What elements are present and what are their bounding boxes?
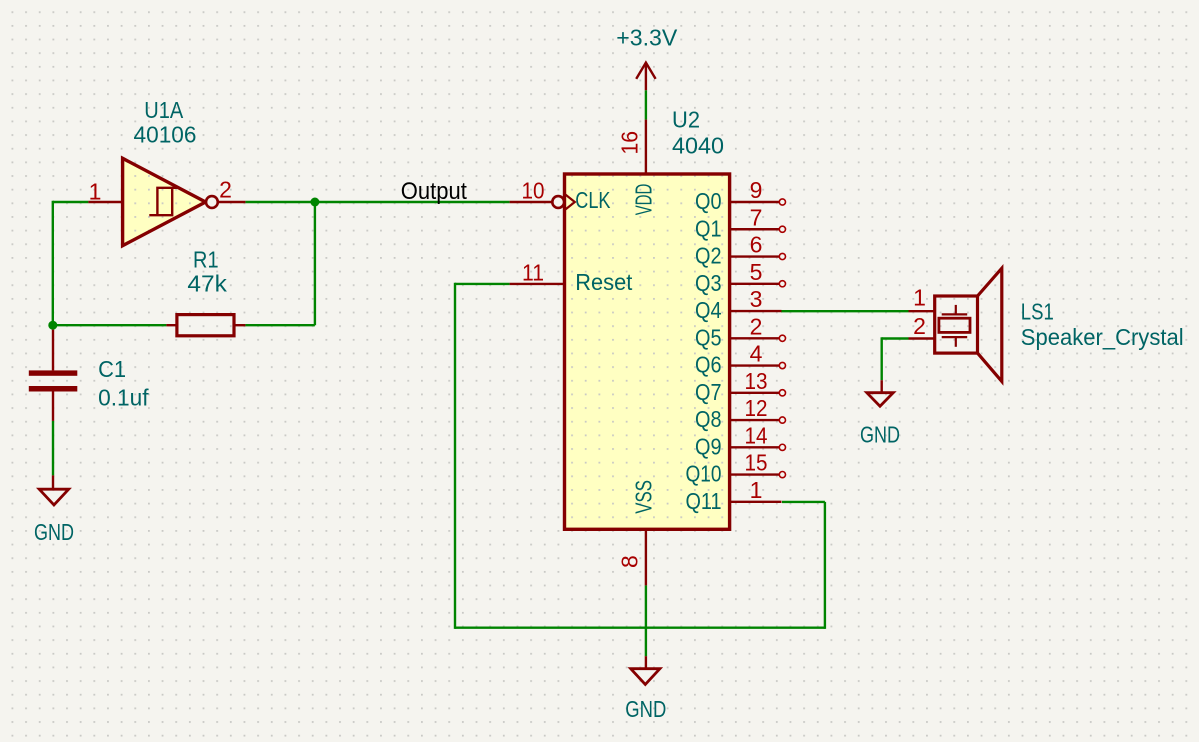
junction: C1 / R1 / U1A input [48, 321, 57, 330]
svg-text:Speaker_Crystal: Speaker_Crystal [1021, 324, 1184, 350]
value 4040 [672, 133, 724, 159]
wire: C1 bottom to GND [52, 421, 54, 476]
hysteresis symbol (U1A) [149, 188, 177, 215]
svg-text:Q9: Q9 [695, 433, 722, 459]
power symbol +3.3V [636, 63, 655, 91]
svg-text:47k: 47k [187, 271, 227, 297]
wire: Output net, U1A pin2 to U2 CLK [245, 201, 509, 203]
label +3.3V [616, 25, 678, 51]
U2 pin 5 Q3 [695, 259, 786, 296]
value 47k [187, 271, 227, 297]
svg-text:40106: 40106 [134, 122, 197, 148]
svg-text:Q6: Q6 [695, 352, 722, 378]
U2 pin 15 Q10 [686, 450, 786, 487]
wire: U1A input node (pin1 / R1 left / C1 top) [53, 201, 167, 325]
U2 pin 10 CLK [510, 195, 575, 210]
reference C1 [98, 356, 126, 382]
wire: U2 Q11 to bottom rail [645, 502, 825, 629]
label GND (LS1) [860, 422, 900, 448]
svg-text:9: 9 [750, 177, 763, 203]
label GND (VSS) [625, 696, 666, 722]
value 0.1uf [98, 385, 149, 411]
svg-text:GND: GND [625, 696, 666, 722]
svg-text:3: 3 [750, 286, 763, 312]
net label Output [401, 178, 467, 205]
svg-text:R1: R1 [193, 247, 219, 273]
value 40106 [134, 122, 197, 148]
reference LS1 [1021, 299, 1054, 325]
svg-text:1: 1 [750, 477, 763, 503]
pin name VDD [631, 184, 657, 216]
svg-text:13: 13 [745, 368, 768, 394]
svg-text:Q7: Q7 [695, 379, 722, 405]
U2 pin 8 VSS [645, 529, 647, 585]
ground GND (C1) [39, 475, 68, 505]
reference U1A [144, 97, 184, 123]
pin number 10 (U2 CLK) [522, 178, 545, 204]
reference R1 [193, 247, 219, 273]
wire: LS1 pin2 to GND [882, 337, 909, 380]
U2 pin 2 Q5 [695, 313, 786, 350]
U2 pin 7 Q1 [695, 204, 786, 241]
svg-text:5: 5 [750, 259, 763, 285]
pin number 1 (U1A) [89, 179, 102, 205]
U2 pin 11 Reset [510, 283, 565, 285]
crystal symbol (LS1) [939, 305, 970, 347]
speaker LS1 pin 2 [909, 337, 935, 339]
svg-text:1: 1 [913, 285, 926, 311]
svg-text:VDD: VDD [631, 184, 657, 216]
ic U2 4040 body [565, 174, 730, 529]
U2 pin 9 Q0 [695, 177, 786, 214]
svg-text:C1: C1 [98, 356, 126, 382]
wire: U2 Reset to bottom rail [455, 283, 647, 629]
resistor R1 [166, 315, 245, 336]
svg-text:2: 2 [913, 313, 926, 339]
inverter U1A (40106 schmitt trigger) [123, 158, 206, 245]
pin name Reset [575, 269, 633, 295]
U2 pin 16 VDD [645, 120, 647, 174]
pin number 8 (U2 VSS) [617, 555, 643, 568]
svg-text:CLK: CLK [575, 187, 611, 213]
svg-text:Reset: Reset [575, 269, 633, 295]
svg-text:Q11: Q11 [686, 488, 722, 514]
U2 pin 4 Q6 [695, 341, 786, 378]
U2 pin 6 Q2 [695, 232, 786, 269]
svg-text:6: 6 [750, 232, 763, 258]
svg-text:7: 7 [750, 204, 763, 230]
svg-text:2: 2 [750, 313, 763, 339]
svg-text:Q8: Q8 [695, 406, 722, 432]
inverter U1A pin 2 [218, 201, 246, 203]
svg-text:14: 14 [745, 422, 768, 448]
wire: R1 right to Output node [245, 202, 315, 325]
U2 pin 12 Q8 [695, 395, 786, 432]
U2 pin 1 Q11 [686, 477, 782, 514]
reference U2 [672, 107, 700, 133]
svg-text:16: 16 [617, 131, 643, 155]
svg-text:Q10: Q10 [686, 461, 722, 487]
pin number 16 (U2 VDD) [617, 131, 643, 155]
svg-text:0.1uf: 0.1uf [98, 385, 149, 411]
svg-text:U1A: U1A [144, 97, 184, 123]
svg-text:1: 1 [89, 179, 102, 205]
svg-text:12: 12 [745, 395, 768, 421]
speaker LS1 pin 1 [909, 310, 935, 312]
svg-text:4040: 4040 [672, 133, 724, 159]
svg-text:8: 8 [617, 555, 643, 568]
svg-text:GND: GND [34, 519, 74, 545]
svg-text:Q2: Q2 [695, 243, 722, 269]
svg-text:11: 11 [522, 260, 544, 286]
svg-text:Q0: Q0 [695, 188, 722, 214]
pin number 2 (LS1) [913, 313, 926, 339]
wire: U2 VSS to GND [645, 585, 647, 656]
wire: U2 Q4 to LS1 pin1 [781, 310, 909, 312]
svg-text:Q5: Q5 [695, 324, 722, 350]
wire: +3.3V to U2 VDD [645, 90, 647, 119]
pin name VSS [631, 480, 657, 514]
svg-text:15: 15 [745, 450, 768, 476]
svg-text:Output: Output [401, 178, 467, 205]
capacitor C1 [29, 330, 78, 421]
ground GND (LS1) [867, 380, 894, 406]
ground GND (VSS) [631, 656, 660, 684]
junction: Output / R1 right [310, 198, 319, 207]
inversion bubble (U1A output) [206, 196, 218, 208]
label GND (C1) [34, 519, 74, 545]
svg-text:+3.3V: +3.3V [616, 25, 678, 51]
U2 pin 3 Q4 [695, 286, 782, 323]
value Speaker_Crystal [1021, 324, 1184, 350]
svg-text:4: 4 [750, 341, 763, 367]
svg-text:2: 2 [219, 177, 232, 203]
svg-text:10: 10 [522, 178, 545, 204]
svg-text:Q1: Q1 [695, 215, 722, 241]
pin number 11 (U2 Reset) [522, 260, 544, 286]
svg-text:Q3: Q3 [695, 270, 722, 296]
pin name CLK [575, 187, 611, 213]
U2 pin 14 Q9 [695, 422, 786, 459]
inverter U1A pin 1 [88, 201, 122, 203]
svg-text:LS1: LS1 [1021, 299, 1054, 325]
svg-text:U2: U2 [672, 107, 700, 133]
pin number 2 (U1A) [219, 177, 232, 203]
speaker LS1 body [935, 268, 1002, 381]
U2 pin 13 Q7 [695, 368, 786, 405]
svg-text:Q4: Q4 [695, 297, 722, 323]
svg-text:GND: GND [860, 422, 900, 448]
svg-text:VSS: VSS [631, 480, 657, 514]
pin number 1 (LS1) [913, 285, 926, 311]
